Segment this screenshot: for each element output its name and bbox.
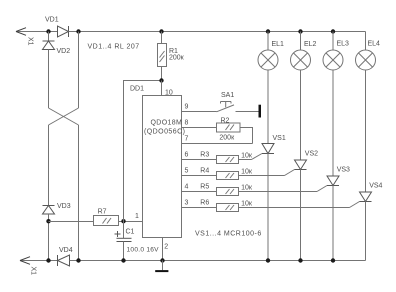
svg-text:(QDO056C): (QDO056C) <box>144 129 185 136</box>
resistor R1 <box>158 44 167 67</box>
resistor R7 <box>94 216 119 226</box>
svg-text:10к: 10к <box>241 184 253 191</box>
svg-text:2: 2 <box>164 244 168 251</box>
svg-text:7: 7 <box>185 136 189 143</box>
svg-text:10к: 10к <box>241 152 253 159</box>
wire pin 7 <box>182 143 253 145</box>
wire ground stub <box>162 261 164 271</box>
op-amp U1: IC DD1 box <box>143 96 182 238</box>
wire R7 to pin 1 <box>119 221 143 223</box>
wire column B lower (to bottom bus) <box>78 125 80 261</box>
svg-text:VD2: VD2 <box>57 48 71 55</box>
diode VD1 <box>58 26 69 37</box>
svg-text:EL4: EL4 <box>368 41 381 48</box>
resistor R4 <box>217 172 239 180</box>
wire top bus to R1 <box>161 32 163 44</box>
svg-text:VD1: VD1 <box>45 17 59 24</box>
svg-text:SA1: SA1 <box>221 92 234 99</box>
svg-text:X1: X1 <box>27 37 34 46</box>
svg-text:VD4: VD4 <box>59 247 73 254</box>
wire R3 to VS1 gate <box>239 159 252 161</box>
svg-text:R6: R6 <box>200 200 209 207</box>
transistor Q2: thyristor VS2 <box>295 160 307 170</box>
svg-text:8: 8 <box>185 120 189 127</box>
transistor Q3: thyristor VS3 <box>327 176 339 186</box>
wire pin 2 to bus <box>162 238 164 261</box>
wire pin 10 top <box>161 81 163 96</box>
wire pin 8 <box>182 127 217 129</box>
terminal plate (sensor bar) <box>259 105 262 118</box>
node top bus junctions <box>46 29 335 33</box>
wire pin 5 <box>182 175 217 177</box>
wire VS3 cathode to bus <box>332 186 334 261</box>
wire top terminal segment <box>16 31 58 33</box>
wire EL4 to VS4 <box>365 70 367 192</box>
svg-text:1: 1 <box>135 213 139 220</box>
svg-text:DD1: DD1 <box>130 86 144 93</box>
node R1 bottom junction <box>159 78 163 82</box>
wire R2 to pin 7 loop <box>240 128 253 144</box>
svg-text:EL1: EL1 <box>272 41 285 48</box>
wire R6 to VS4 gate <box>239 207 350 209</box>
node pin1/C1 junction <box>121 219 125 223</box>
wire VD2 anode down column A <box>48 50 50 109</box>
transistor Q1: thyristor VS1 <box>262 144 274 154</box>
wire VS4 gate diagonal <box>350 202 360 208</box>
wire EL2 to VS2 <box>300 70 302 160</box>
node bottom bus junctions <box>46 258 335 262</box>
wire VS1 cathode to bus <box>267 154 269 261</box>
svg-text:VS1...4 MCR100-6: VS1...4 MCR100-6 <box>195 231 262 238</box>
capacitor C1 plus sign <box>115 231 121 237</box>
svg-text:VD1..4 RL 207: VD1..4 RL 207 <box>88 43 140 50</box>
wire EL1 to VS1 <box>267 70 269 144</box>
wire VD1 cathode to top bus <box>69 31 79 33</box>
wire VS3 gate diagonal <box>317 186 327 192</box>
diode VD3 <box>43 206 55 215</box>
ground <box>155 270 168 272</box>
svg-text:EL3: EL3 <box>337 41 350 48</box>
wire EL3 to VS3 <box>332 70 334 176</box>
wire VS2 cathode to bus <box>300 170 302 261</box>
wire pin 9 <box>182 111 217 113</box>
switch SA1 lever <box>217 105 235 112</box>
svg-text:4: 4 <box>185 184 189 191</box>
wire bottom bus <box>79 260 366 262</box>
diode VD4 <box>58 255 70 266</box>
svg-text:R2: R2 <box>221 117 230 124</box>
wire top bus <box>79 31 366 33</box>
svg-text:9: 9 <box>185 104 189 111</box>
wire VS1 gate diagonal <box>252 154 263 160</box>
svg-text:QDO18M: QDO18M <box>151 120 183 127</box>
transistor Q4: thyristor VS4 <box>360 192 372 202</box>
lamp EL2 column top wire <box>300 32 302 51</box>
wire R4 to VS2 gate <box>239 175 285 177</box>
lamp EL2 <box>291 50 311 70</box>
wire crossover B to A <box>49 108 79 125</box>
svg-text:100.0 16V: 100.0 16V <box>127 247 160 254</box>
resistor R6 <box>217 204 239 212</box>
terminal X1 top arrow <box>16 28 26 36</box>
svg-text:VD3: VD3 <box>57 203 71 210</box>
svg-text:200к: 200к <box>219 134 235 141</box>
lamp EL1 <box>258 50 278 70</box>
capacitor C1 <box>117 238 132 241</box>
svg-text:10к: 10к <box>241 200 253 207</box>
svg-text:R4: R4 <box>200 168 209 175</box>
wire VD4 anode to bus <box>70 260 79 262</box>
wire R5 to VS3 gate <box>239 191 318 193</box>
svg-text:200к: 200к <box>169 55 185 62</box>
wire VD3 junction to R7 <box>49 221 94 223</box>
wire crossover A to B <box>49 108 79 125</box>
svg-text:VS2: VS2 <box>305 150 318 157</box>
lamp EL4 column top wire <box>365 32 367 51</box>
wire pin 4 <box>182 191 217 193</box>
wire column B from top bus <box>78 32 80 109</box>
terminal X1 bottom arrow <box>20 257 30 265</box>
svg-text:10: 10 <box>165 90 173 97</box>
svg-text:10к: 10к <box>241 168 253 175</box>
wire R1 to pin 10 <box>161 67 163 96</box>
lamp EL3 <box>323 50 343 70</box>
svg-text:VS4: VS4 <box>369 183 382 190</box>
svg-text:R7: R7 <box>98 209 107 216</box>
wire VS4 cathode to bus <box>365 202 367 261</box>
wire pin 6 <box>182 159 217 161</box>
svg-text:VS1: VS1 <box>273 135 286 142</box>
node VD3 anode junction <box>46 219 50 223</box>
svg-text:R3: R3 <box>200 152 209 159</box>
wire VD2 cathode stub <box>48 32 50 42</box>
svg-text:X1: X1 <box>30 267 37 276</box>
wire SA1 right contact <box>236 111 259 113</box>
svg-text:6: 6 <box>185 152 189 159</box>
resistor R5 <box>217 188 239 196</box>
svg-text:R5: R5 <box>200 184 209 191</box>
lamp EL3 column top wire <box>332 32 334 51</box>
resistor R2 <box>217 123 241 132</box>
switch SA1 actuator <box>221 102 232 108</box>
wire left vertical from R1 node to pin1 node <box>124 81 162 222</box>
svg-text:5: 5 <box>185 168 189 175</box>
wire VS2 gate diagonal <box>285 170 295 176</box>
wire bottom terminal segment <box>20 260 58 262</box>
svg-text:C1: C1 <box>126 229 135 236</box>
wire pin 3 <box>182 207 217 209</box>
wire column A lower (to VD3 cathode) <box>48 125 50 206</box>
svg-text:VS3: VS3 <box>337 166 350 173</box>
diode VD2 <box>43 41 55 50</box>
wire C1 top lead <box>123 222 125 239</box>
resistor R3 <box>217 156 239 164</box>
wire C1 bottom lead <box>123 242 125 261</box>
svg-text:3: 3 <box>185 200 189 207</box>
lamp EL4 <box>356 50 376 70</box>
wire VD3 anode to junction <box>48 214 50 261</box>
svg-text:EL2: EL2 <box>304 41 317 48</box>
lamp EL1 column top wire <box>267 32 269 51</box>
